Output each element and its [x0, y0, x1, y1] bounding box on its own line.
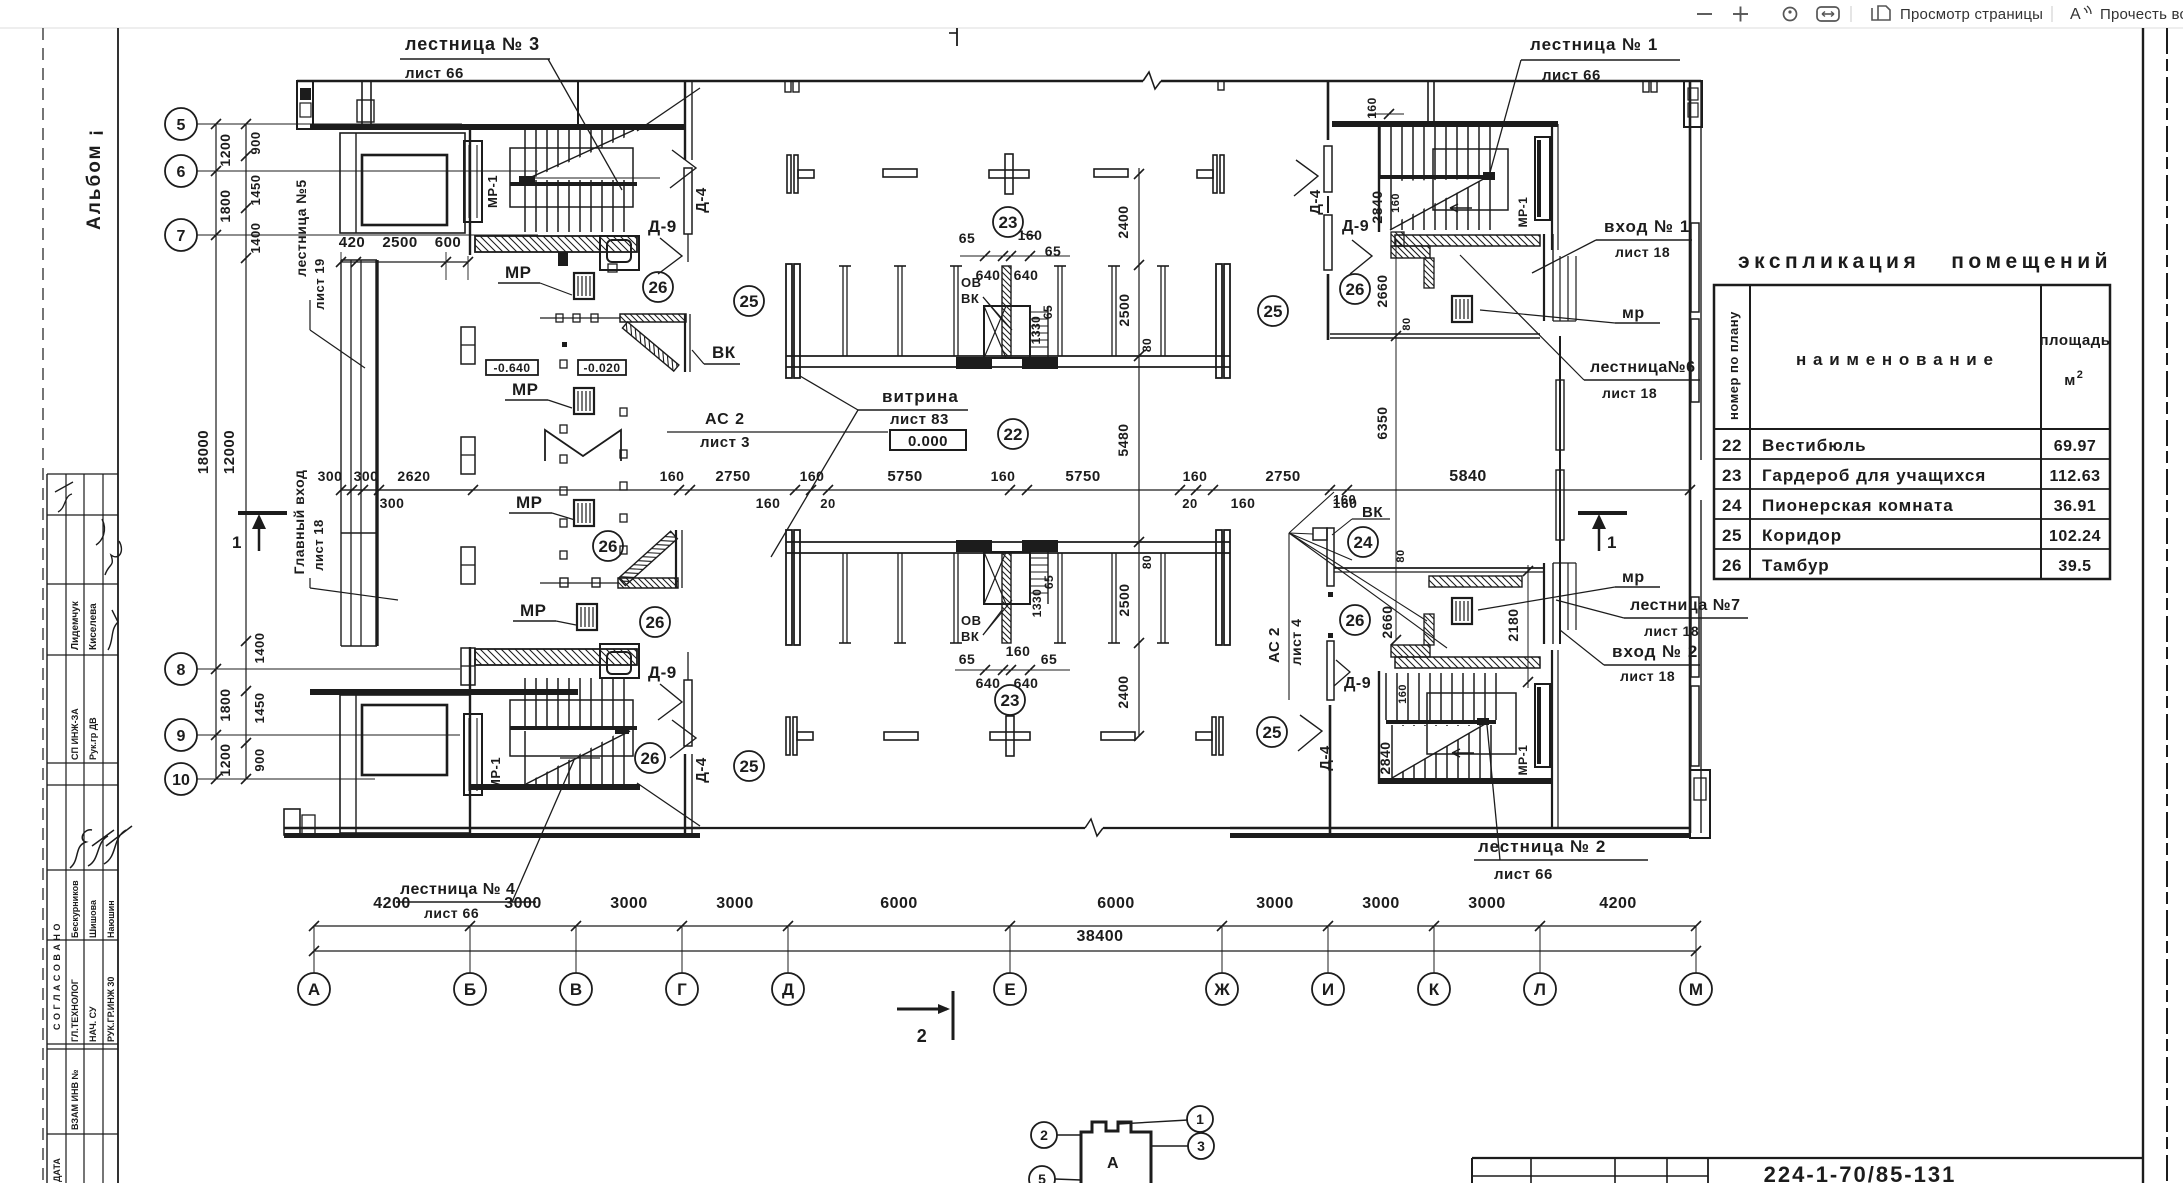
svg-text:2: 2	[2077, 369, 2084, 381]
svg-text:8: 8	[177, 662, 186, 679]
label лестница N2 bottom	[1474, 725, 1648, 883]
horizontal wall left wing	[310, 124, 685, 130]
svg-text:4200: 4200	[1599, 895, 1637, 912]
svg-text:0.000: 0.000	[908, 433, 948, 450]
svg-text:25: 25	[740, 292, 759, 311]
svg-text:5: 5	[1038, 1171, 1046, 1183]
svg-text:23: 23	[1001, 691, 1020, 710]
section marker 1 right	[1578, 513, 1627, 552]
tambour wall vertical	[685, 314, 690, 372]
svg-text:Б: Б	[464, 980, 476, 999]
svg-text:26: 26	[1346, 280, 1365, 299]
key plan	[1029, 1106, 1214, 1183]
tambour wall horizontal lower	[540, 578, 678, 588]
entrance 1 porch	[1544, 234, 1576, 321]
sheet left dashed edge line	[42, 28, 44, 1183]
svg-text:26: 26	[646, 613, 665, 632]
svg-text:160: 160	[1365, 97, 1379, 119]
svg-text:С О Г Л А С О В А Н О: С О Г Л А С О В А Н О	[52, 923, 62, 1030]
svg-text:2660: 2660	[1379, 605, 1395, 638]
door D-4 label lower	[670, 720, 710, 783]
svg-text:Тамбур: Тамбур	[1762, 556, 1830, 575]
label витрина	[772, 376, 968, 560]
svg-text:Наюшин: Наюшин	[106, 900, 116, 938]
svg-text:160: 160	[1390, 193, 1402, 213]
left dim line inner	[221, 119, 267, 784]
stamp text: Наюшин	[106, 900, 116, 938]
svg-text:М: М	[1689, 980, 1703, 999]
svg-text:1: 1	[232, 533, 242, 552]
label лестница N1 top	[1489, 35, 1680, 176]
MP box 1	[574, 273, 594, 299]
svg-text:2750: 2750	[1265, 468, 1300, 485]
mid dim line	[341, 468, 1695, 511]
stamp sig k	[108, 610, 118, 650]
svg-text:мр: мр	[1622, 305, 1645, 322]
stamp text: рук.гр.инж	[106, 977, 116, 1042]
svg-text:Киселева: Киселева	[88, 603, 99, 650]
svg-text:6000: 6000	[880, 895, 918, 912]
svg-text:И: И	[1322, 980, 1334, 999]
svg-text:160: 160	[1231, 495, 1256, 511]
door D-4 label right top	[1294, 160, 1324, 215]
MP box entrance 1	[1452, 296, 1472, 322]
circle 26 right top	[1340, 274, 1370, 304]
column row top: dash	[883, 169, 917, 177]
stamp text: взам инв	[70, 1069, 80, 1130]
label лестница N6	[1460, 255, 1700, 401]
circle 26 mid-left	[593, 531, 623, 561]
svg-text:5840: 5840	[1449, 468, 1487, 485]
dim 2660 right	[1374, 274, 1413, 341]
svg-text:640: 640	[1014, 267, 1039, 283]
svg-text:1400: 1400	[248, 223, 263, 254]
stamp text: гл.технолог	[70, 979, 80, 1042]
svg-text:лист 66: лист 66	[424, 905, 479, 921]
svg-text:80: 80	[1395, 549, 1407, 562]
top outer wall	[297, 72, 1701, 89]
svg-text:Е: Е	[1004, 980, 1015, 999]
svg-text:1200: 1200	[217, 133, 233, 166]
svg-text:2400: 2400	[1115, 675, 1131, 708]
stamp text: нач СУ	[88, 1006, 98, 1042]
bottom outer wall center	[700, 819, 1230, 836]
shaft lower rotated dims	[1030, 575, 1056, 618]
stair3 landing wall	[685, 81, 692, 160]
svg-text:26: 26	[1346, 611, 1365, 630]
svg-text:ОВ: ОВ	[961, 275, 982, 290]
level box -0.020	[578, 360, 626, 375]
svg-text:3000: 3000	[1468, 895, 1506, 912]
section marker 2 bottom	[897, 991, 953, 1046]
svg-text:Альбом ¡: Альбом ¡	[84, 128, 105, 230]
label лестница N4	[396, 760, 574, 921]
vestibule room outline lower	[340, 695, 470, 833]
stamp text: Киселева	[88, 603, 99, 650]
label AC2 лист4	[1266, 533, 1304, 700]
fold mark top center	[949, 28, 957, 46]
svg-text:Д-9: Д-9	[648, 217, 677, 236]
svg-text:25: 25	[1264, 302, 1283, 321]
svg-text:МР-1: МР-1	[1516, 745, 1530, 776]
svg-text:6: 6	[177, 164, 186, 181]
svg-text:2: 2	[917, 1026, 928, 1046]
svg-text:лестница№6: лестница№6	[1590, 359, 1696, 376]
svg-text:лист 66: лист 66	[1494, 866, 1553, 883]
svg-text:65: 65	[1045, 243, 1062, 259]
svg-text:Д: Д	[782, 980, 794, 999]
partition node squares column1	[560, 360, 567, 559]
svg-text:26: 26	[1722, 556, 1742, 575]
svg-text:лист 18: лист 18	[1644, 623, 1699, 639]
label MP-1 lower	[488, 757, 503, 790]
corridor right wall segments	[1324, 81, 1334, 833]
svg-text:лестница №7: лестница №7	[1630, 597, 1740, 614]
svg-text:2750: 2750	[715, 468, 750, 485]
column row top: T	[787, 155, 814, 193]
stamp text: ст.инж-за	[70, 708, 80, 760]
svg-text:лестница № 3: лестница № 3	[405, 34, 540, 54]
dim 160 stair1	[1365, 97, 1404, 119]
svg-text:22: 22	[1004, 425, 1023, 444]
svg-text:1800: 1800	[217, 688, 233, 721]
svg-text:160: 160	[991, 468, 1016, 484]
svg-text:НАЧ. СУ: НАЧ. СУ	[88, 1006, 98, 1042]
svg-text:26: 26	[649, 278, 668, 297]
svg-text:26: 26	[599, 537, 618, 556]
column row bottom: T	[786, 717, 813, 755]
sheet right dashed outer line	[2166, 28, 2168, 1183]
label MP 4	[513, 601, 576, 625]
svg-text:3: 3	[1197, 1138, 1205, 1154]
tambour diagonal wall lower	[619, 531, 678, 585]
svg-text:7: 7	[177, 228, 186, 245]
svg-text:Шишова: Шишова	[88, 899, 98, 938]
svg-text:лист 18: лист 18	[1620, 668, 1675, 684]
svg-text:Д-4: Д-4	[1317, 745, 1334, 771]
svg-text:69.97: 69.97	[2054, 438, 2097, 455]
handrail hatched band stair3	[475, 236, 639, 270]
label мр right bottom	[1478, 569, 1660, 610]
column row bottom: T2	[1196, 717, 1223, 755]
pier MP-1 right top	[1516, 137, 1550, 227]
svg-text:Д-9: Д-9	[648, 663, 677, 682]
label вход N2	[1560, 630, 1700, 684]
handrail hatched band stair4	[475, 644, 639, 678]
circle 23 upper	[993, 207, 1036, 237]
svg-text:К: К	[1429, 980, 1440, 999]
M-shaped partition	[545, 430, 621, 461]
ventilation shaft upper	[984, 306, 1048, 358]
svg-text:лист 66: лист 66	[1542, 67, 1601, 84]
svg-text:420: 420	[339, 234, 366, 251]
svg-text:МР: МР	[520, 601, 547, 620]
svg-text:25: 25	[1263, 723, 1282, 742]
svg-text:лист 83: лист 83	[890, 411, 949, 428]
column row bottom: dash	[884, 732, 918, 740]
signatures upper	[55, 482, 121, 575]
svg-text:2620: 2620	[397, 468, 430, 484]
svg-text:МР: МР	[505, 263, 532, 282]
right wing outer wall	[1690, 81, 1701, 833]
svg-text:2180: 2180	[1505, 608, 1521, 641]
dim 300 300 2620	[318, 468, 478, 511]
svg-text:5480: 5480	[1115, 423, 1131, 456]
pier MP-1 right bottom	[1516, 684, 1550, 775]
svg-text:640: 640	[1014, 675, 1039, 691]
bottom outer wall right part	[1230, 770, 1710, 838]
svg-text:м: м	[2064, 372, 2076, 389]
staircase N3	[470, 81, 700, 255]
staircase N4	[470, 647, 700, 833]
svg-text:лестница № 4: лестница № 4	[400, 881, 515, 898]
svg-text:Просмотр страницы: Просмотр страницы	[1900, 6, 2043, 23]
svg-text:н а и м е н о в а н и е: н а и м е н о в а н и е	[1796, 350, 1994, 369]
svg-text:МР-1: МР-1	[1516, 197, 1530, 228]
svg-text:Бескурников: Бескурников	[70, 880, 80, 938]
bottom dimension chain	[309, 895, 1701, 931]
svg-text:65: 65	[1041, 305, 1055, 319]
svg-text:5750: 5750	[1065, 468, 1100, 485]
svg-text:3000: 3000	[1256, 895, 1294, 912]
svg-text:МР-1: МР-1	[485, 175, 500, 208]
label VK left	[692, 343, 740, 364]
svg-text:АС 2: АС 2	[1266, 627, 1283, 663]
svg-text:3000: 3000	[610, 895, 648, 912]
label лестница N3 top	[400, 34, 622, 190]
radiator symbol 1	[461, 327, 475, 364]
svg-text:витрина: витрина	[882, 387, 959, 406]
door D-4 lower-left	[684, 652, 692, 746]
svg-text:160: 160	[756, 495, 781, 511]
VK fan	[1289, 492, 1447, 648]
signatures lower	[70, 826, 132, 868]
inner wall right wing	[1556, 336, 1564, 644]
svg-text:мр: мр	[1622, 569, 1645, 586]
svg-text:65: 65	[959, 230, 976, 246]
svg-text:лестница № 2: лестница № 2	[1478, 837, 1606, 856]
svg-text:лестница № 1: лестница № 1	[1530, 35, 1658, 54]
tambour wall vertical lower	[676, 530, 682, 588]
svg-text:1800: 1800	[217, 189, 233, 222]
wardrobe bank upper	[786, 264, 1230, 378]
circle 25 lower-right	[1257, 717, 1287, 747]
wall corner detail top-left	[297, 81, 313, 129]
label MP-1 upper	[485, 175, 500, 208]
column row bottom: dash2	[1101, 732, 1135, 740]
dim 2180	[1505, 565, 1533, 688]
svg-text:6350: 6350	[1374, 406, 1390, 439]
label лестница N7	[1556, 597, 1748, 639]
svg-text:4200: 4200	[373, 895, 411, 912]
svg-text:Лидемчук: Лидемчук	[70, 600, 81, 650]
circle 25 lower-left	[734, 751, 764, 781]
left stamp table grid	[47, 474, 118, 1183]
svg-text:-0.640: -0.640	[493, 361, 530, 375]
label главный вход	[291, 470, 398, 600]
bottom-left corner detail	[284, 809, 315, 835]
stamp text: согласовано	[52, 923, 62, 1030]
MP box entrance 2	[1452, 598, 1472, 624]
label лестница N5	[293, 179, 365, 368]
svg-text:600: 600	[435, 234, 462, 251]
explication table	[1714, 250, 2112, 579]
svg-text:Д-4: Д-4	[693, 187, 710, 213]
right outer windows	[1691, 223, 1699, 766]
shaft dims upper	[959, 227, 1070, 344]
main entrance steps	[341, 260, 377, 646]
axis circles left	[165, 108, 538, 795]
circle 26 upper-left	[643, 272, 673, 302]
svg-text:160: 160	[1006, 643, 1031, 659]
svg-text:18000: 18000	[195, 430, 212, 474]
svg-text:23: 23	[999, 213, 1018, 232]
svg-text:2660: 2660	[1374, 274, 1390, 307]
album label	[84, 128, 105, 230]
stamp text: Лидемчук	[70, 600, 81, 650]
svg-text:А: А	[1107, 1155, 1119, 1172]
svg-text:Д-9: Д-9	[1342, 218, 1369, 235]
svg-text:1450: 1450	[252, 693, 267, 724]
svg-text:1: 1	[1196, 1111, 1204, 1127]
svg-text:3000: 3000	[1362, 895, 1400, 912]
svg-text:ДАТА: ДАТА	[52, 1158, 62, 1182]
door D-9 label upper	[648, 217, 682, 274]
svg-text:160: 160	[660, 468, 685, 484]
pier MP-1 upper	[464, 141, 482, 222]
circle 26 mid-left2	[640, 607, 670, 637]
vestibule inner rectangle	[362, 155, 447, 225]
svg-text:2500: 2500	[382, 234, 417, 251]
door D-4 label upper	[670, 150, 710, 213]
svg-text:Рук.гр ДВ: Рук.гр ДВ	[88, 717, 98, 760]
door D-9 label right bottom	[1334, 660, 1371, 692]
svg-text:Л: Л	[1534, 980, 1546, 999]
svg-text:2840: 2840	[1369, 190, 1385, 223]
svg-text:Пионерская комната: Пионерская комната	[1762, 496, 1954, 515]
tambour diagonal wall	[622, 322, 678, 371]
svg-text:ГЛ.ТЕХНОЛОГ: ГЛ.ТЕХНОЛОГ	[70, 979, 80, 1042]
svg-text:5750: 5750	[887, 468, 922, 485]
svg-text:5: 5	[177, 117, 186, 134]
svg-text:23: 23	[1722, 466, 1742, 485]
svg-text:640: 640	[976, 675, 1001, 691]
circle 24	[1348, 527, 1378, 557]
svg-text:160: 160	[800, 468, 825, 484]
browser toolbar	[0, 0, 2183, 28]
svg-text:300: 300	[354, 468, 379, 484]
svg-text:24: 24	[1354, 533, 1373, 552]
svg-text:СП ИНЖ-ЗА: СП ИНЖ-ЗА	[70, 708, 80, 760]
label MP 1	[498, 263, 572, 295]
svg-text:6000: 6000	[1097, 895, 1135, 912]
svg-text:ВК: ВК	[961, 629, 979, 644]
pier MP-1 lower	[464, 714, 482, 795]
axis stubs	[314, 926, 1696, 973]
svg-text:160: 160	[1183, 468, 1208, 484]
svg-text:Г: Г	[677, 980, 687, 999]
label MP right top	[1480, 305, 1660, 323]
stamp text: Бескурников	[70, 880, 80, 938]
stamp text: Шишова	[88, 899, 98, 938]
radiator symbol 2	[461, 437, 475, 474]
svg-text:Гардероб для учащихся: Гардероб для учащихся	[1762, 466, 1986, 485]
svg-text:65: 65	[1041, 651, 1058, 667]
svg-text:лист 19: лист 19	[312, 258, 327, 309]
svg-text:номер по плану: номер по плану	[1726, 311, 1741, 420]
svg-text:10: 10	[172, 772, 190, 789]
svg-text:1450: 1450	[248, 175, 263, 206]
svg-text:Д-9: Д-9	[1344, 675, 1371, 692]
svg-text:лист 4: лист 4	[1288, 619, 1304, 666]
vestibule room outline	[340, 133, 465, 233]
staircase N1	[1379, 127, 1508, 232]
svg-text:900: 900	[248, 131, 263, 154]
svg-text:3000: 3000	[716, 895, 754, 912]
leader vitrina lower	[771, 410, 858, 557]
svg-text:A: A	[2070, 6, 2081, 23]
stamp text: рук.гр ДБ	[88, 717, 98, 760]
svg-text:20: 20	[1182, 496, 1197, 511]
svg-text:1200: 1200	[217, 743, 233, 776]
dim 2840 lower	[1377, 549, 1409, 774]
svg-text:А: А	[308, 980, 320, 999]
svg-text:20: 20	[820, 496, 835, 511]
svg-text:Вестибюль: Вестибюль	[1762, 436, 1867, 455]
small hatched block below band	[558, 252, 617, 272]
stamp text: дата	[52, 1158, 62, 1182]
svg-text:вход № 1: вход № 1	[1604, 217, 1690, 236]
bottom title block	[1472, 1158, 2143, 1183]
entrance 1 tambour walls	[1391, 232, 1434, 288]
svg-text:80: 80	[1140, 555, 1154, 569]
label MP 3	[509, 493, 575, 520]
svg-text:лист 18: лист 18	[1615, 244, 1670, 260]
svg-text:224-1-70/85-131: 224-1-70/85-131	[1764, 1162, 1957, 1183]
svg-text:Д-4: Д-4	[693, 757, 710, 783]
partition node squares column2	[620, 408, 627, 554]
svg-text:МР: МР	[512, 380, 539, 399]
MP box 3	[574, 500, 594, 526]
sheet left inner frame line	[117, 28, 119, 1183]
label AC2 лист3	[667, 411, 888, 451]
wall stub on top wall	[357, 81, 374, 126]
svg-text:лист 18: лист 18	[311, 519, 326, 570]
svg-text:площадь: площадь	[2040, 332, 2111, 349]
left dim line outer	[195, 119, 233, 784]
svg-text:ВЗАМ ИНВ №: ВЗАМ ИНВ №	[70, 1069, 80, 1130]
entrance 2 tambour band	[1334, 568, 1544, 668]
door D-4 upper-left	[684, 168, 692, 262]
svg-text:3000: 3000	[504, 895, 542, 912]
svg-text:лист 66: лист 66	[405, 65, 464, 82]
bottom overall dimension	[309, 928, 1701, 956]
svg-text:1330: 1330	[1030, 589, 1044, 618]
radiator symbol 3	[461, 547, 475, 584]
svg-text:ОВ: ОВ	[961, 613, 982, 628]
svg-text:экспликация помещений: экспликация помещений	[1738, 250, 2112, 273]
corner detail top-right	[1684, 81, 1702, 127]
horizontal wall right wing top	[1332, 82, 1558, 127]
sheet right frame line	[2142, 28, 2144, 1183]
shaft dims lower	[955, 600, 1070, 691]
circle 23 lower	[995, 685, 1025, 715]
svg-text:25: 25	[1722, 526, 1742, 545]
svg-text:65: 65	[959, 651, 976, 667]
svg-text:1330: 1330	[1029, 316, 1043, 345]
svg-text:-0.020: -0.020	[583, 361, 620, 375]
circle 25 left	[734, 286, 764, 316]
